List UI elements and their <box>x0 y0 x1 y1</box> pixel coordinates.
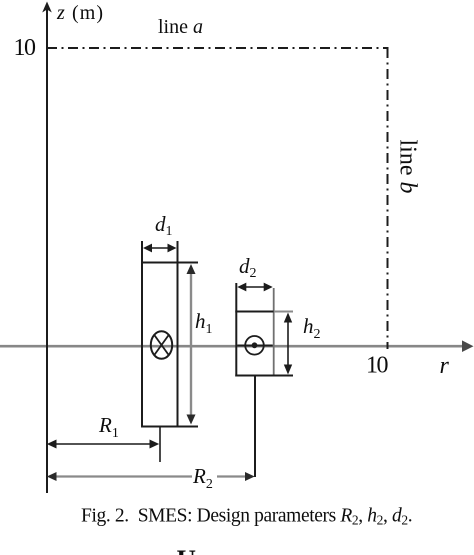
coil 1 current symbol (circle with X) <box>151 331 172 359</box>
R2 dimension arrow (gray shaft) <box>47 472 255 481</box>
coil 1 rectangle <box>141 241 198 427</box>
z axis <box>42 2 52 494</box>
coil 2 inner center line <box>237 345 272 347</box>
svg-text:line b: line b <box>395 140 421 194</box>
svg-text:R1: R1 <box>98 413 119 441</box>
svg-text:h1: h1 <box>195 309 213 337</box>
svg-text:d2: d2 <box>239 254 257 281</box>
svg-text:10: 10 <box>366 353 389 379</box>
svg-text:r: r <box>440 353 450 379</box>
svg-text:U: U <box>177 545 197 555</box>
d1 dimension arrow <box>143 244 177 253</box>
coil 2 rectangle <box>235 283 293 377</box>
coil 1 center line <box>159 427 161 462</box>
line a (dash-dot at z=10) <box>47 47 389 49</box>
svg-text:10: 10 <box>14 35 37 61</box>
h1 dimension arrow (gray shaft) <box>187 264 196 425</box>
coil 2 center line <box>254 377 256 478</box>
svg-text:R2: R2 <box>192 464 213 492</box>
R1 dimension arrow <box>47 440 159 449</box>
d2 dimension arrow <box>237 283 272 292</box>
svg-text:z (m): z (m) <box>56 2 104 24</box>
coil 2 current symbol (circle with dot) <box>245 336 264 355</box>
svg-text:Fig. 2. SMES: Design paramete: Fig. 2. SMES: Design parameters R2, h2, … <box>81 506 412 528</box>
h2 dimension arrow <box>284 313 292 375</box>
r axis <box>0 340 474 352</box>
svg-text:line a: line a <box>158 16 203 38</box>
svg-text:d1: d1 <box>155 212 173 239</box>
line b (dash-dot at r=10) <box>387 48 389 349</box>
svg-text:h2: h2 <box>303 314 321 342</box>
